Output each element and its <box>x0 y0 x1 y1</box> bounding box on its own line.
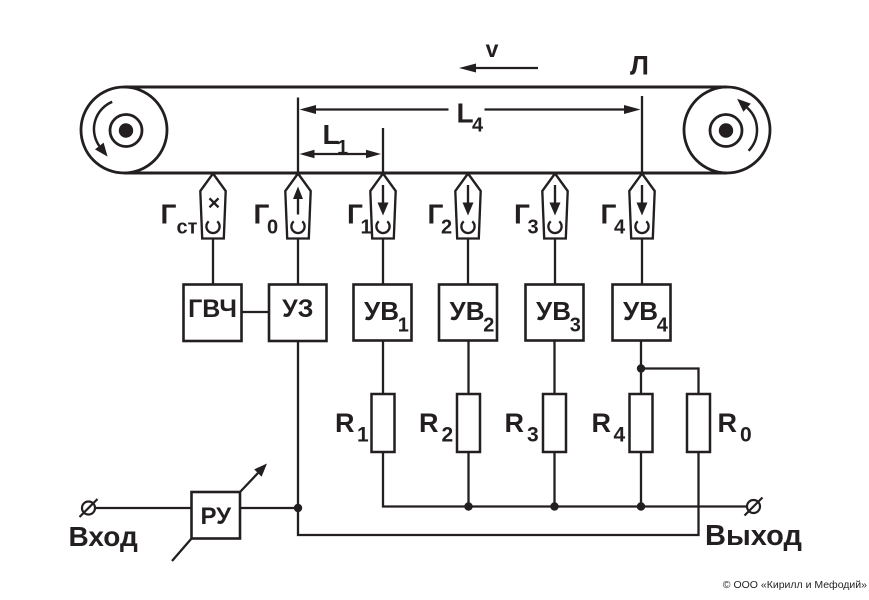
left reel rotation arrow <box>94 102 112 157</box>
wire УВ4 to R4 <box>640 341 642 395</box>
wire R1 bottom to bus <box>383 452 748 507</box>
resistor R1 <box>372 394 395 452</box>
svg-text:РУ: РУ <box>200 503 232 530</box>
wire junction to R0 top <box>641 369 699 395</box>
box УВ4 <box>613 285 671 341</box>
svg-text:R: R <box>419 408 439 438</box>
svg-text:0: 0 <box>267 217 278 239</box>
head Г1 <box>370 174 395 239</box>
resistor R0 <box>687 394 710 452</box>
v velocity arrow <box>459 64 538 73</box>
junction dot R3 bus <box>550 502 558 510</box>
svg-text:1: 1 <box>398 315 409 337</box>
box УВ3 <box>526 285 584 341</box>
svg-text:R: R <box>335 408 355 438</box>
svg-text:1: 1 <box>357 424 369 447</box>
tape top line <box>124 86 727 89</box>
svg-text:Выход: Выход <box>705 520 802 552</box>
right reel outer circle <box>684 87 770 173</box>
svg-text:0: 0 <box>740 424 752 447</box>
wire Г0 to УЗ <box>297 239 299 285</box>
left reel outer circle <box>81 87 167 173</box>
head Г2 <box>455 174 480 239</box>
dimension arrow L4 <box>300 105 641 114</box>
wire R0 bottom return to node <box>298 452 699 535</box>
junction dot УВ4 output <box>637 364 645 372</box>
output terminal ∅ <box>745 498 763 516</box>
svg-text:4: 4 <box>614 217 626 239</box>
svg-text:УВ: УВ <box>450 296 485 326</box>
resistor R4 <box>630 394 653 452</box>
tape bottom line <box>124 172 727 175</box>
head Г4 <box>629 174 654 239</box>
wire Г2 to УВ2 <box>467 239 469 285</box>
wire Г3 to УВ3 <box>554 239 556 285</box>
node tick at head Г4 <box>641 96 643 172</box>
wire ГВЧ to УЗ <box>242 311 270 313</box>
svg-text:3: 3 <box>570 315 581 337</box>
svg-text:Г: Г <box>161 199 177 230</box>
svg-text:2: 2 <box>441 217 452 239</box>
svg-text:4: 4 <box>614 424 626 447</box>
wire УВ2 to R2 <box>467 341 469 395</box>
wire R2 bottom to bus <box>467 452 469 507</box>
РУ variable arrow upper segment <box>240 464 267 493</box>
wire R4 bottom to bus <box>640 452 642 507</box>
svg-text:УЗ: УЗ <box>282 295 313 323</box>
РУ variable arrow lower segment <box>172 539 192 562</box>
wire УВ1 to R1 <box>382 341 384 395</box>
svg-text:2: 2 <box>442 424 454 447</box>
head Гст <box>200 174 225 239</box>
svg-text:ГВЧ: ГВЧ <box>188 295 237 323</box>
svg-text:R: R <box>505 408 525 438</box>
svg-text:1: 1 <box>361 217 372 239</box>
svg-text:R: R <box>592 408 612 438</box>
svg-text:Вход: Вход <box>69 521 138 552</box>
junction dot R4 bus <box>637 502 645 510</box>
node tick at head Г0 <box>297 98 299 172</box>
wire input to РУ <box>95 507 192 509</box>
box УВ1 <box>354 285 412 341</box>
svg-text:3: 3 <box>528 217 539 239</box>
right reel hub dot <box>719 123 733 137</box>
box УЗ <box>269 285 327 342</box>
wire Гст to ГВЧ <box>212 239 214 285</box>
left reel inner circle <box>110 115 142 147</box>
svg-text:УВ: УВ <box>364 296 399 326</box>
left reel hub dot <box>119 123 133 137</box>
input terminal ∅ <box>80 499 98 517</box>
svg-text:Л: Л <box>630 51 649 81</box>
wire Г4 to УВ4 <box>641 239 643 285</box>
svg-text:1: 1 <box>337 137 348 159</box>
svg-text:v: v <box>486 36 499 62</box>
junction dot РУ-УЗ node <box>294 504 302 512</box>
svg-text:ст: ст <box>177 217 198 239</box>
resistor R3 <box>543 394 566 452</box>
junction dot R2 bus <box>464 502 472 510</box>
head Г0 <box>285 174 310 239</box>
svg-text:R: R <box>718 408 738 438</box>
svg-text:УВ: УВ <box>536 296 571 326</box>
wire R3 bottom to bus <box>553 452 555 507</box>
right reel rotation arrow <box>737 99 757 151</box>
svg-text:4: 4 <box>472 115 484 137</box>
wire РУ to node <box>240 507 298 509</box>
svg-text:3: 3 <box>527 424 539 447</box>
right reel inner circle <box>710 115 742 147</box>
resistor R2 <box>457 394 480 452</box>
head Г3 <box>542 174 567 239</box>
box РУ <box>192 492 241 539</box>
wire Г1 to УВ1 <box>382 239 384 285</box>
wire УВ3 to R3 <box>553 341 555 395</box>
svg-text:4: 4 <box>657 315 669 337</box>
svg-text:2: 2 <box>483 315 494 337</box>
box ГВЧ <box>184 285 242 342</box>
box УВ2 <box>439 285 497 341</box>
node tick at head Г1 <box>382 128 384 172</box>
svg-text:© ООО «Кирилл и Мефодий»: © ООО «Кирилл и Мефодий» <box>723 579 867 591</box>
wire УЗ to junction node <box>297 341 299 508</box>
dimension arrow L1 <box>300 150 382 158</box>
svg-text:УВ: УВ <box>623 296 658 326</box>
